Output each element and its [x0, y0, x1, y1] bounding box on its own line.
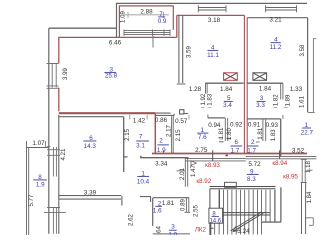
svg-text:2: 2 — [159, 138, 163, 145]
svg-text:1.82: 1.82 — [272, 94, 279, 106]
svg-text:3.3: 3.3 — [256, 102, 265, 109]
shaft wall left tick up — [207, 115, 209, 118]
outer top-left wall of room 3 — [49, 27, 117, 29]
shaft double wall left — [225, 118, 227, 141]
svg-text:1.84: 1.84 — [306, 191, 313, 203]
red apartment labels — [195, 160, 299, 233]
dim tick 1.07 right — [45, 141, 50, 147]
stairwell inner left wall — [209, 189, 211, 235]
nook right wall — [280, 119, 282, 156]
room 4 (11.2) right wall — [307, 18, 309, 113]
svg-text:8.3: 8.3 — [247, 176, 256, 183]
hall bottom wall left apt double — [185, 158, 246, 161]
svg-text:1.0: 1.0 — [168, 232, 177, 236]
inter-apartment red double wall — [244, 15, 247, 153]
corridor vertical wall double — [185, 158, 187, 187]
bottom wall piece y=234 — [153, 233, 190, 235]
svg-text:1.84: 1.84 — [220, 86, 233, 93]
svg-text:2: 2 — [251, 139, 255, 146]
shaft wall right apartment — [247, 118, 281, 120]
window of room 3 left wall — [47, 64, 59, 89]
right balcony bracket bottom — [305, 170, 313, 225]
room 5 top wall — [205, 82, 243, 84]
rotated dim ticks — [201, 107, 288, 139]
svg-text:3.99: 3.99 — [62, 67, 69, 79]
room 3 red right wall up to room 4 — [176, 15, 178, 37]
svg-text:1.89: 1.89 — [285, 94, 292, 106]
svg-text:1.9: 1.9 — [36, 181, 45, 188]
balcony 7 window — [124, 30, 170, 48]
svg-text:2.75: 2.75 — [195, 147, 208, 154]
door tick apartment k8.94 — [279, 150, 281, 159]
window room 6 left wall — [47, 147, 60, 177]
right balcony bracket top — [308, 39, 316, 113]
window room 8 zone lower — [44, 208, 66, 234]
svg-text:7.6: 7.6 — [198, 134, 207, 141]
svg-text:1.6: 1.6 — [153, 208, 162, 215]
svg-text:25.8: 25.8 — [105, 73, 118, 80]
wall between room 2 and hall (7.6) — [172, 116, 174, 153]
svg-text:5.72: 5.72 — [248, 161, 261, 168]
svg-text:2.15: 2.15 — [124, 128, 131, 140]
svg-text:6: 6 — [235, 139, 239, 146]
svg-text:0.64: 0.64 — [156, 225, 163, 235]
vent box room 5 red with X — [224, 73, 238, 81]
svg-text:3.59: 3.59 — [186, 45, 193, 57]
dim ticks 1.42 / 0.86 / 0.57 — [130, 115, 189, 120]
svg-text:1.42: 1.42 — [133, 117, 146, 124]
svg-text:к8.92: к8.92 — [196, 178, 211, 185]
room 2 (1.9) top wall and duct step — [155, 113, 174, 115]
vent box room 3 right dark with X — [253, 73, 267, 81]
svg-text:1.07: 1.07 — [32, 140, 45, 147]
WC door marks — [219, 141, 260, 143]
svg-text:1.28: 1.28 — [189, 86, 202, 93]
svg-text:10.4: 10.4 — [137, 178, 150, 185]
balcony 7 red inner outline — [119, 6, 173, 38]
room 4 (11.1) top red wall — [177, 14, 245, 16]
svg-text:1.47: 1.47 — [190, 164, 197, 176]
dim line 2.88 — [123, 12, 169, 18]
svg-text:1.81: 1.81 — [162, 200, 175, 207]
svg-text:3.52: 3.52 — [292, 148, 305, 155]
svg-text:3.4: 3.4 — [223, 102, 232, 109]
svg-text:2.88: 2.88 — [140, 8, 153, 15]
room 3 red bottom wall — [59, 112, 156, 114]
svg-text:3.34: 3.34 — [155, 160, 168, 167]
svg-text:ЛК2: ЛК2 — [195, 226, 207, 233]
room 3 right top wall — [247, 82, 283, 84]
svg-text:к8.94: к8.94 — [272, 160, 287, 167]
stairwell right wall — [275, 187, 281, 222]
red wall of room 2 (1.9) — [154, 113, 156, 153]
left wall inner face below room 3 — [58, 115, 60, 234]
wall duct box to hall — [184, 113, 188, 115]
svg-text:14.3: 14.3 — [84, 143, 97, 150]
svg-text:3.39: 3.39 — [84, 190, 97, 197]
svg-text:3.58: 3.58 — [299, 44, 306, 56]
shaft double wall right — [263, 119, 266, 141]
svg-text:1.81: 1.81 — [218, 127, 225, 139]
svg-text:3.1: 3.1 — [136, 143, 145, 150]
svg-text:3.18: 3.18 — [208, 17, 221, 24]
door swing triangle — [191, 161, 196, 166]
svg-text:4.21: 4.21 — [60, 148, 67, 160]
svg-text:1.83: 1.83 — [270, 129, 277, 141]
stairwell left wall — [218, 190, 220, 215]
svg-text:0.86: 0.86 — [155, 117, 168, 124]
room 6 bottom wall double — [59, 196, 122, 206]
svg-text:2.62: 2.62 — [128, 213, 135, 225]
svg-text:1.7: 1.7 — [231, 147, 240, 154]
svg-text:6.46: 6.46 — [109, 39, 122, 46]
svg-text:11.1: 11.1 — [207, 52, 219, 59]
svg-text:3.24: 3.24 — [237, 228, 250, 235]
svg-text:1.18: 1.18 — [305, 160, 312, 172]
svg-text:2.17: 2.17 — [166, 124, 173, 136]
wall end tick — [185, 211, 191, 213]
stair treads — [215, 190, 270, 235]
right wall lower double — [302, 183, 306, 235]
svg-text:1.84: 1.84 — [259, 85, 272, 92]
red apartment boundary wall y=153.5 — [152, 153, 307, 155]
svg-text:1.83: 1.83 — [207, 93, 214, 105]
small duct box — [180, 110, 184, 114]
wall stub left of door (bottom center) — [140, 197, 151, 202]
stairwell door notch — [225, 182, 237, 187]
door stop mark — [226, 155, 228, 157]
stair direction arrow — [231, 212, 265, 232]
svg-text:0.57: 0.57 — [175, 118, 188, 125]
svg-text:1.09: 1.09 — [120, 10, 127, 22]
room 5 left wall stub — [206, 83, 208, 93]
shaft wall left apartment — [208, 117, 225, 119]
svg-text:7: 7 — [139, 133, 143, 140]
svg-text:0.92: 0.92 — [230, 122, 243, 129]
svg-text:2.55: 2.55 — [193, 204, 200, 216]
svg-text:3: 3 — [171, 224, 175, 231]
svg-text:2.15: 2.15 — [175, 129, 182, 141]
left balcony room 8 outline — [27, 141, 50, 235]
red wall stub x=163.6 — [163, 151, 165, 154]
stair lower-left wall — [211, 223, 214, 235]
svg-text:14.6: 14.6 — [209, 218, 221, 224]
svg-text:5.77: 5.77 — [28, 194, 35, 206]
corridor top wall — [141, 156, 189, 159]
stairwell top wall double — [210, 187, 276, 189]
svg-text:1.7: 1.7 — [247, 147, 256, 154]
stairwell bottom wall — [262, 221, 281, 223]
door tick on corridor wall — [177, 170, 186, 172]
room 4 (11.2) top wall — [247, 17, 307, 19]
svg-text:1.9: 1.9 — [157, 147, 166, 154]
left outer wall full height — [48, 28, 50, 234]
window of room 4 (11.2) — [266, 5, 297, 12]
door tick apartment k8.93 — [212, 150, 214, 161]
balcony 7 outer wall — [117, 3, 308, 37]
svg-text:22.7: 22.7 — [301, 130, 314, 137]
svg-text:3.21: 3.21 — [269, 17, 282, 24]
room 3 right wall stub — [281, 83, 283, 99]
room 4 (11.1) left wall double — [177, 15, 186, 84]
room 6 top wall — [59, 116, 124, 118]
svg-text:к8.93: к8.93 — [205, 162, 220, 169]
svg-text:2.01: 2.01 — [179, 167, 186, 179]
svg-text:0.91: 0.91 — [248, 122, 261, 129]
nook wall top tick — [282, 115, 284, 119]
window of room 4 (11.1) — [198, 5, 226, 12]
right wall window — [301, 160, 307, 183]
white box behind stair room label — [209, 208, 223, 223]
svg-text:1.61: 1.61 — [299, 95, 306, 107]
svg-text:1.33: 1.33 — [290, 86, 303, 93]
right apt bottom wall double — [246, 156, 317, 158]
svg-text:1.81: 1.81 — [257, 127, 264, 139]
bottom center walls room 2 (1.6) — [153, 198, 189, 226]
svg-text:1.80: 1.80 — [226, 127, 233, 139]
room 6 right wall — [124, 117, 128, 172]
svg-text:0.93: 0.93 — [266, 122, 279, 129]
svg-text:11.2: 11.2 — [270, 44, 282, 51]
room 3 red outline top/left — [59, 37, 177, 111]
svg-text:к8.95: к8.95 — [283, 174, 298, 181]
svg-text:0.89: 0.89 — [179, 198, 186, 210]
stair landing double line — [219, 213, 270, 215]
svg-text:0.9: 0.9 — [158, 18, 167, 25]
